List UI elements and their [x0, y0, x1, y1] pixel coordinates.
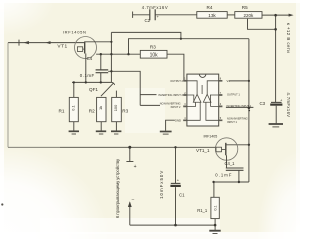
transistor VT1_1 gate tick [222, 149, 226, 151]
wire VT1_1 source down [226, 155, 228, 168]
capacitor C4_1 lower tap [238, 170, 240, 182]
wire to non-inverting input 2 [140, 104, 160, 106]
wire input left to VT1 gate [8, 42, 84, 44]
svg-text:–: – [132, 197, 135, 202]
capacitor C1 top tap [175, 147, 177, 183]
arrow input 2 [46, 41, 51, 44]
svg-text:OUTPUT 1: OUTPUT 1 [227, 92, 240, 96]
svg-text:NON-INVERTING: NON-INVERTING [160, 102, 181, 106]
svg-text:C4: C4 [87, 56, 93, 61]
wire R1 bottom [73, 122, 75, 131]
svg-text:QF1: QF1 [89, 87, 98, 92]
wire VT1 drain to node [85, 41, 112, 43]
ground R1_1 [209, 230, 220, 232]
svg-text:0.1: 0.1 [213, 205, 217, 210]
IC notch [199, 74, 206, 77]
IC internal wires [187, 81, 197, 95]
op-amp triangle 1 [193, 94, 201, 102]
wire A top horizontal [111, 32, 180, 38]
wire inverting input 1 [226, 106, 254, 108]
arrow terminal minus up [128, 201, 132, 207]
wire R4 to R5 [227, 14, 235, 16]
arrow input 1 [24, 41, 29, 44]
svg-text:R3: R3 [150, 44, 156, 49]
svg-text:R3: R3 [122, 108, 128, 113]
wire to inverting input 2 [140, 94, 156, 96]
wire rail bottom corner to R1_1 node [213, 181, 249, 183]
resistor R1 [69, 97, 78, 121]
wire to C2 [133, 14, 150, 16]
svg-text:OUTPUT 2: OUTPUT 2 [170, 79, 183, 83]
svg-text:INVERTING INPUT 2: INVERTING INPUT 2 [158, 93, 183, 97]
svg-text:INPUT 1: INPUT 1 [227, 120, 237, 124]
resistor R3 [140, 50, 167, 58]
wire B horizontal y38.7 [129, 39, 249, 55]
wire C3 to ground [275, 106, 277, 124]
arrow output right [289, 14, 294, 17]
terminal minus bottom arrow wire [129, 203, 131, 226]
svg-text:GND: GND [175, 119, 181, 123]
wire long horizontal bottom of top section [8, 146, 60, 148]
IC pin stubs left [183, 81, 187, 121]
capacitor C4 tap [100, 54, 102, 70]
transistor VT1 gate box [77, 47, 82, 52]
wire GND pin down to ground [166, 120, 175, 131]
wire C2 to R4 [155, 14, 197, 16]
op-amp triangle 2 [203, 94, 211, 102]
transistor VT1_1 channel bar [225, 143, 227, 156]
terminal plus bottom [129, 147, 131, 161]
wire right rail vertical [248, 39, 250, 182]
svg-text:R4: R4 [207, 5, 213, 10]
op-amp IC package U1 [187, 74, 219, 126]
svg-text:INPUT 2: INPUT 2 [171, 105, 181, 109]
terminal bar input [18, 40, 20, 46]
svg-text:VT1_1: VT1_1 [196, 148, 210, 153]
svg-text:+: + [134, 164, 137, 170]
resistor R4 [197, 12, 227, 19]
wire VT1 source down [85, 54, 87, 83]
svg-text:10k: 10k [150, 53, 159, 59]
wire R3 right to pin1 [167, 54, 184, 81]
wire R100 bottom [115, 122, 117, 131]
transistor QF1 stub [115, 91, 117, 98]
svg-text:R5: R5 [242, 5, 248, 10]
transistor VT1 envelope [75, 37, 97, 59]
svg-text:IRF1405N: IRF1405N [63, 30, 87, 35]
svg-text:NON-INVERTING: NON-INVERTING [227, 116, 248, 120]
svg-text:R1_1: R1_1 [197, 208, 208, 213]
svg-text:10mFx50V: 10mFx50V [159, 170, 164, 199]
wire R1_1 top [213, 182, 215, 197]
svg-text:к +12 В сети: к +12 В сети [286, 23, 291, 53]
wire VT1_1 drain [226, 144, 249, 146]
svg-text:4.7mFx16V: 4.7mFx16V [142, 5, 168, 10]
wire C3 rail vertical [275, 15, 277, 102]
resistor R2 [97, 97, 106, 121]
wire bottom row y225 [130, 224, 215, 226]
transistor QF1 diagonal [101, 83, 114, 96]
ground R2 [96, 130, 106, 132]
resistor R1_1 [211, 197, 219, 218]
svg-text:0.1mF: 0.1mF [215, 172, 232, 177]
transistor VT1_1 gate box [216, 147, 222, 152]
transistor VT1_1 envelope [215, 138, 237, 160]
ground IC [160, 131, 172, 133]
wire node A vertical x111 [110, 32, 112, 82]
svg-text:IRF1405: IRF1405 [204, 134, 218, 138]
wire R1_1 bottom [214, 219, 216, 231]
wire V+ pin to rail [229, 80, 249, 82]
wire R2 bottom [100, 122, 102, 131]
resistor 100 [112, 97, 122, 121]
svg-text:C4_1: C4_1 [225, 161, 236, 166]
capacitor C1 plates [171, 182, 181, 184]
capacitor C4_1 plates [226, 168, 244, 170]
svg-text:C2: C2 [145, 18, 151, 23]
wire R1 tap [73, 82, 75, 97]
capacitor C4 lower tap [100, 73, 102, 83]
svg-text:V+: V+ [227, 79, 231, 83]
wire R5 bottom loop [248, 19, 276, 30]
resistor R5 [235, 12, 262, 19]
svg-text:4.7mFx16V: 4.7mFx16V [286, 92, 291, 117]
capacitor C4 plates [96, 70, 109, 73]
wire C4 node to IC inputs [108, 71, 140, 105]
ground R100 [111, 130, 121, 132]
svg-text:13k: 13k [208, 13, 216, 18]
capacitor C3 plates [271, 101, 282, 103]
wire R5 right with arrow [262, 14, 291, 16]
svg-text:C3: C3 [260, 101, 266, 106]
wire left edge vertical [7, 43, 9, 148]
IC pin stubs right [219, 81, 223, 121]
svg-text:100: 100 [113, 104, 118, 111]
svg-text:C1: C1 [179, 192, 185, 197]
svg-text:INVERTING INPUT 1: INVERTING INPUT 1 [227, 104, 252, 108]
svg-text:0.1: 0.1 [70, 105, 75, 110]
svg-text:К проигрывающему устройству: К проигрывающему устройству [115, 158, 120, 218]
svg-text:220k: 220k [244, 13, 255, 18]
svg-text:1k: 1k [98, 106, 103, 110]
capacitor C1 bottom tap [175, 187, 177, 225]
arrows [24, 14, 294, 207]
ground R1 [69, 130, 79, 132]
svg-text:R2: R2 [89, 108, 95, 113]
svg-text:VT1: VT1 [57, 43, 67, 49]
wire drain row to R3 [96, 53, 140, 55]
capacitor C2 plates [150, 9, 155, 20]
svg-text:0.1mF: 0.1mF [80, 73, 95, 78]
svg-text:R1: R1 [59, 108, 65, 113]
ground C3 [269, 123, 283, 125]
transistor VT1 gate tick [83, 48, 85, 50]
top rail start bar [132, 12, 134, 18]
wire emitter row y82.4 [72, 81, 111, 83]
transistor VT1 channel bar [84, 42, 86, 54]
